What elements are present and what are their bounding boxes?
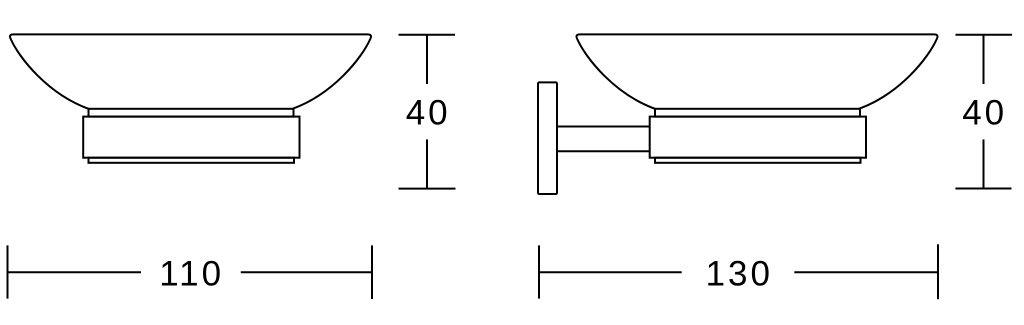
width dimension line 110 left segment	[8, 271, 142, 273]
width dimension line 110 right tick	[371, 245, 373, 299]
height dimension line 40 (left view) lower segment	[426, 139, 428, 188]
soap dish bowl (right wall-mounted view)	[576, 34, 937, 108]
wall mounting plate	[538, 82, 557, 194]
width dimension line 130 right tick	[937, 244, 939, 299]
soap dish bowl (left view)	[10, 34, 371, 108]
svg-text:130: 130	[706, 255, 773, 294]
svg-text:110: 110	[159, 255, 224, 294]
width dimension line 130 right segment	[794, 271, 938, 273]
height dimension line 40 (left view) bottom tick	[399, 188, 456, 190]
mounting arm top edge	[557, 126, 650, 128]
height dimension line 40 (right view) lower segment	[983, 139, 985, 188]
height dimension line 40 (left view) upper segment	[426, 35, 428, 84]
height dimension line 40 (right view) bottom tick	[955, 188, 1011, 190]
dish holder bottom strip (right view)	[655, 158, 861, 163]
width dimension line 110 left tick	[7, 245, 9, 298]
svg-text:40: 40	[406, 94, 451, 133]
height dimension line 40 (left view) top tick	[399, 34, 456, 36]
dish base body (left view)	[83, 117, 299, 158]
dish collar band (right view)	[655, 109, 860, 117]
svg-text:40: 40	[962, 94, 1007, 133]
width dimension line 130 left segment	[539, 271, 682, 273]
dish collar band (left view)	[89, 109, 294, 117]
mounting arm bottom edge	[557, 150, 650, 152]
height dimension line 40 (right view) top tick	[956, 34, 1013, 36]
height dimension line 40 (right view) upper segment	[983, 35, 985, 84]
width dimension line 130 left tick	[538, 245, 540, 298]
width dimension line 110 right segment	[241, 271, 372, 273]
dish holder body (right view)	[650, 117, 866, 158]
dish base bottom strip (left view)	[89, 158, 295, 163]
